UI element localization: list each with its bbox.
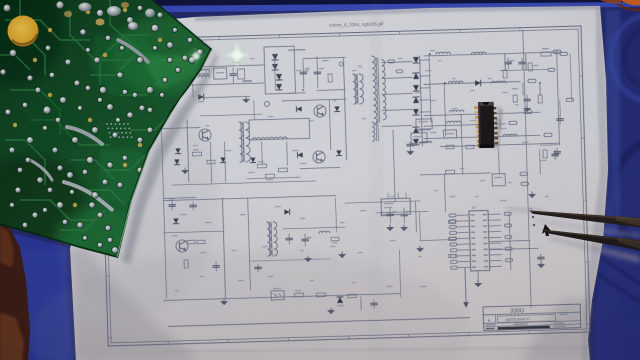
drive transformer T3 core box bbox=[249, 118, 310, 140]
output choke L5 bbox=[491, 81, 505, 83]
wire bbox=[283, 227, 345, 229]
diode D32 bbox=[220, 157, 225, 162]
resistor R46 bbox=[348, 294, 356, 298]
lens flare at PCB corner bbox=[189, 42, 250, 68]
filter cap C12 bbox=[526, 95, 528, 105]
vertical bus wire bbox=[523, 30, 531, 308]
mat bright triangle between hand and paper bbox=[8, 232, 76, 360]
resistor R43 bbox=[184, 260, 188, 268]
cap C32 bbox=[288, 234, 290, 244]
wire bbox=[419, 99, 430, 101]
resistor R72 bbox=[448, 254, 455, 257]
title block revision cell bbox=[559, 314, 567, 316]
output choke L6 bbox=[449, 110, 463, 112]
wire bbox=[343, 58, 346, 160]
wire bbox=[419, 141, 430, 143]
wire bbox=[164, 231, 224, 233]
ground bbox=[387, 225, 393, 231]
wire bbox=[504, 54, 506, 70]
wire bbox=[540, 144, 558, 147]
transformer winding (secondary) bbox=[245, 122, 250, 162]
resistor R40 bbox=[187, 240, 195, 244]
pill connector +5V bbox=[528, 79, 536, 83]
junction bbox=[539, 82, 541, 84]
U1 left pin 9 bbox=[458, 260, 470, 262]
U1 left pin 5 bbox=[458, 237, 470, 239]
wire bbox=[419, 87, 430, 89]
wire bbox=[444, 83, 446, 136]
U1 right pin 13 bbox=[488, 225, 500, 227]
transformer core bbox=[241, 122, 244, 162]
text +12V bbox=[430, 50, 435, 52]
wire bbox=[419, 212, 422, 240]
wire bbox=[539, 83, 541, 95]
cap C50 bbox=[554, 150, 556, 160]
capacitor CY1 bbox=[232, 68, 234, 73]
junction dot bbox=[533, 224, 535, 226]
title block file row bbox=[484, 324, 581, 327]
U1 left pin 10 connector bbox=[451, 266, 458, 269]
U1 right pin 4 connector bbox=[505, 235, 512, 238]
ground bbox=[524, 106, 530, 112]
wire bbox=[559, 100, 561, 115]
varistor RV1 bbox=[243, 80, 251, 82]
resistor R32 bbox=[265, 174, 274, 178]
filter capacitor C10 bbox=[507, 58, 509, 69]
shadow of PCB on paper bbox=[122, 52, 218, 264]
res R23 bbox=[543, 150, 547, 158]
diode D7 bbox=[336, 150, 341, 155]
U1 left pin 8 connector bbox=[450, 254, 457, 257]
base resistor R30 bbox=[257, 164, 266, 168]
paper top edge shadow bbox=[195, 6, 600, 21]
wire bbox=[248, 198, 251, 290]
regulator block U5 bbox=[381, 198, 411, 215]
transformer winding (primary) bbox=[353, 74, 358, 104]
resistor R50 bbox=[416, 119, 432, 129]
resistor R45 bbox=[316, 293, 325, 297]
U1 right pin 19 bbox=[490, 259, 502, 261]
junction bbox=[316, 57, 318, 59]
pill connector +3.3V bbox=[524, 110, 532, 114]
U1 right pin 16 bbox=[489, 242, 501, 244]
inrush thermistor NTC bbox=[328, 74, 332, 82]
title block date row bbox=[483, 321, 580, 324]
junction bbox=[444, 82, 446, 84]
output choke L2 bbox=[436, 52, 450, 54]
wire bbox=[419, 59, 430, 61]
diode D40 bbox=[198, 94, 204, 100]
cap C62 bbox=[409, 142, 411, 148]
secondary winding lower extension bbox=[372, 122, 375, 141]
resistor R64 bbox=[503, 70, 507, 78]
wire bbox=[317, 89, 345, 92]
bulk capacitor C1 bbox=[302, 60, 305, 88]
U1 right pin 11 bbox=[488, 213, 500, 215]
opto coupler IC2 bbox=[271, 291, 284, 300]
U1 left pin 2 bbox=[457, 220, 469, 222]
pill connector PSON bbox=[521, 182, 529, 185]
U1 left pin 2 connector bbox=[449, 220, 456, 223]
transformer winding (secondary) bbox=[359, 74, 364, 104]
rectifier diode D15 bbox=[413, 127, 419, 133]
wire bbox=[419, 111, 430, 113]
paper bottom right corner shade bbox=[520, 300, 592, 360]
wire bbox=[253, 100, 256, 120]
+12V rail wire bbox=[424, 52, 560, 56]
wire bbox=[429, 54, 431, 122]
resistor R34 bbox=[207, 160, 215, 164]
orange tool top right corner bbox=[620, 0, 640, 5]
cap C41 bbox=[403, 208, 405, 223]
transformer winding (primary) bbox=[267, 222, 271, 256]
transformer winding (primary) bbox=[239, 122, 244, 162]
paper right edge shade bbox=[581, 6, 608, 360]
tweezers lower prong bbox=[542, 230, 640, 251]
scattered reference text labels bbox=[235, 62, 240, 63]
wire bbox=[249, 259, 330, 261]
resistor R22 bbox=[538, 95, 542, 103]
output choke L9 bbox=[319, 231, 330, 233]
ground bbox=[305, 256, 311, 262]
cap C35 bbox=[373, 300, 375, 308]
U1 left pin 4 bbox=[458, 231, 470, 233]
wire bbox=[187, 120, 189, 182]
U1 right pin 18 bbox=[489, 254, 501, 256]
diode D3 bbox=[276, 74, 282, 80]
rectifier diode D10 bbox=[413, 57, 419, 63]
wire bbox=[500, 69, 548, 70]
title block size cell bbox=[483, 315, 495, 324]
resistor R66 bbox=[496, 120, 500, 128]
IC ground bbox=[477, 272, 479, 281]
U1 left pin 5 connector bbox=[450, 237, 457, 240]
tweezers motion blur ghost bbox=[506, 207, 544, 214]
ground bbox=[538, 262, 544, 268]
wire bbox=[192, 84, 194, 97]
zone tick marks bbox=[159, 38, 168, 344]
diode D31 bbox=[174, 159, 179, 164]
U1 right pin 2 connector bbox=[504, 224, 511, 227]
protection box U4 bbox=[492, 174, 505, 186]
tweezers bronze tint near edge bbox=[616, 216, 640, 226]
diode D33 bbox=[173, 218, 178, 223]
drawn cursor arrow under tweezer tip bbox=[542, 224, 552, 236]
yellow capacitor top bbox=[8, 16, 39, 47]
driver transistor Q3 bbox=[199, 129, 211, 141]
diode D6 bbox=[334, 106, 339, 111]
tweezers shadows on paper bbox=[546, 236, 640, 263]
wire bbox=[440, 143, 560, 146]
base resistor R31 bbox=[278, 168, 287, 172]
wire bbox=[222, 198, 225, 299]
wire bbox=[224, 142, 225, 182]
diode D9 bbox=[250, 157, 255, 162]
paper crease vertical bbox=[370, 6, 382, 356]
wire bbox=[329, 100, 330, 150]
ground bbox=[417, 246, 423, 252]
wire bbox=[461, 114, 463, 174]
pill connector PG bbox=[520, 172, 528, 175]
output choke L7 bbox=[446, 121, 460, 123]
mat circular ridge top right bbox=[611, 13, 640, 103]
mat bright edge band bbox=[0, 2, 640, 14]
switch transistor Q1 bbox=[314, 105, 326, 117]
ground bbox=[339, 252, 345, 258]
wire bbox=[420, 240, 455, 241]
wire bbox=[444, 174, 445, 212]
U1 right pin 20 bbox=[490, 265, 502, 267]
U1 left pin 3 bbox=[457, 226, 469, 228]
rectifier diode D11 bbox=[413, 73, 419, 79]
resistor R71 bbox=[448, 237, 455, 240]
fingertip highlight bbox=[0, 226, 14, 268]
U1 right pin 8 connector bbox=[506, 259, 513, 262]
wire bbox=[161, 128, 166, 298]
standby cap C31 bbox=[192, 202, 194, 210]
U1 left pin 9 connector bbox=[450, 260, 457, 263]
-5V rail wire bbox=[424, 135, 540, 138]
wire bbox=[522, 83, 524, 95]
U1 left pin 6 connector bbox=[450, 243, 457, 246]
ground bbox=[328, 308, 334, 314]
diode D4 bbox=[276, 84, 282, 90]
U1 left pin 1 bbox=[457, 214, 469, 216]
schematic frame outer border bbox=[99, 26, 590, 346]
pill connector VIN bbox=[566, 98, 574, 101]
transformer core bbox=[355, 74, 358, 104]
U1 right pin 12 bbox=[488, 219, 500, 221]
rectifier diode D12 bbox=[413, 85, 419, 91]
vertical bus wire bbox=[557, 50, 560, 145]
wire bbox=[415, 202, 418, 232]
transformer core bbox=[269, 222, 272, 256]
diode D2 bbox=[272, 64, 278, 70]
output choke L4 bbox=[448, 81, 462, 83]
secondary tap wires bbox=[382, 61, 412, 64]
resistor R41 bbox=[197, 240, 205, 244]
wire bbox=[261, 142, 264, 165]
junction bbox=[429, 53, 431, 55]
rectifier diode D16 bbox=[413, 139, 419, 145]
title block number cell bbox=[497, 314, 555, 322]
resistor R20 bbox=[541, 52, 551, 56]
U1 left pin 7 connector bbox=[450, 249, 457, 252]
+5V rail wire bbox=[424, 82, 520, 85]
wire bbox=[419, 75, 430, 77]
wire bus bbox=[164, 196, 336, 201]
TL431 reference U3 bbox=[337, 297, 343, 303]
pill connector GND bbox=[548, 68, 555, 71]
rectifier diode D13 bbox=[413, 97, 419, 103]
pill connector -12V bbox=[509, 121, 517, 125]
wire bbox=[204, 96, 250, 97]
wire bbox=[282, 99, 346, 101]
wire bbox=[172, 181, 316, 185]
rectifier bus wire bbox=[420, 56, 423, 146]
board edge shading bbox=[118, 49, 212, 258]
wire bbox=[274, 54, 275, 90]
cap C13 bbox=[556, 148, 558, 157]
wire bbox=[399, 250, 400, 297]
U1 left pin 6 bbox=[458, 243, 470, 245]
wire bbox=[200, 114, 262, 116]
DIP IC chip lying on paper bbox=[474, 102, 503, 149]
standby cap C30 bbox=[171, 201, 173, 210]
wire bbox=[286, 142, 289, 165]
schottky diode D20 bbox=[475, 80, 481, 86]
ground bbox=[401, 225, 407, 231]
wire bbox=[509, 214, 511, 270]
resistor R62 bbox=[381, 212, 389, 216]
U1 right pin 14 bbox=[489, 230, 501, 232]
terminal circle bbox=[339, 62, 343, 66]
standby MOSFET Q4 bbox=[176, 240, 188, 252]
pill connector -5V bbox=[544, 133, 552, 137]
wire bbox=[393, 130, 395, 202]
wire bbox=[303, 57, 345, 58]
U1 left pin 8 bbox=[458, 255, 470, 257]
schematic drawing group bbox=[99, 15, 590, 346]
diode D5 bbox=[296, 106, 301, 111]
rectifier diode D14 bbox=[413, 109, 419, 115]
U1 left pin 4 connector bbox=[450, 231, 457, 234]
resistor R61 bbox=[466, 145, 474, 149]
wire bbox=[490, 248, 538, 249]
U1 right pin 6 connector bbox=[505, 247, 512, 250]
schematic frame inner border bbox=[102, 29, 587, 343]
switch transistor Q2 bbox=[313, 151, 325, 163]
cap C34 bbox=[215, 262, 217, 271]
resistor R33 bbox=[192, 152, 201, 156]
U1 left pin 10 bbox=[459, 266, 471, 268]
ground bbox=[243, 97, 249, 103]
bottom rail wire bbox=[164, 294, 400, 301]
U1 left pin 3 connector bbox=[449, 225, 456, 228]
drive transformer windings bbox=[252, 137, 287, 140]
common-mode choke L1 bbox=[198, 69, 209, 71]
+3.3V rail wire bbox=[424, 112, 540, 115]
resistor R63 bbox=[422, 141, 432, 143]
cap C61 bbox=[257, 264, 259, 272]
output choke L3 bbox=[471, 52, 485, 54]
mat dark top strip bbox=[0, 0, 640, 7]
title block title row line bbox=[483, 312, 580, 315]
resistor R21 bbox=[528, 63, 532, 71]
ground bbox=[221, 299, 227, 305]
long bottom bus wire bbox=[168, 318, 470, 327]
wire bbox=[419, 129, 430, 131]
aux winding pills bbox=[388, 60, 395, 63]
IC U1 SG6105 body bbox=[469, 210, 490, 271]
wire bbox=[336, 198, 337, 232]
down arrow bbox=[465, 268, 466, 302]
text +5VSB bbox=[512, 88, 518, 90]
mat circular ridge right bbox=[612, 135, 640, 255]
junction dot bbox=[532, 216, 534, 218]
ground bbox=[407, 149, 413, 155]
U1 right pin 0 connector bbox=[504, 212, 511, 215]
wire bbox=[288, 49, 305, 51]
wire bbox=[376, 211, 428, 213]
wire bbox=[300, 167, 340, 168]
underlying sheet edge line bbox=[160, 347, 590, 352]
U1 left pin 7 bbox=[458, 249, 470, 251]
wire bbox=[360, 297, 362, 310]
resistor R70 bbox=[448, 220, 455, 223]
U1 right pin 15 bbox=[489, 236, 501, 238]
diode D1 bbox=[272, 54, 278, 60]
wire bbox=[570, 54, 571, 100]
wire bbox=[160, 127, 200, 128]
diode D8 bbox=[297, 152, 302, 157]
junction bbox=[302, 89, 304, 91]
AC line wire bbox=[188, 65, 264, 67]
pill connector +12V bbox=[553, 50, 561, 54]
hand holding board (shadowed skin) bbox=[0, 222, 30, 360]
U1 left pin 1 connector bbox=[449, 214, 456, 217]
thermistor TH1 bbox=[264, 101, 269, 106]
output choke L8 bbox=[503, 134, 517, 136]
cap C63 bbox=[559, 115, 561, 124]
transformer winding (secondary) bbox=[273, 222, 277, 256]
T1 secondary winding stack bbox=[372, 56, 377, 124]
wire bbox=[247, 177, 300, 179]
-12V rail wire bbox=[424, 124, 505, 126]
U1 right pin 17 bbox=[489, 248, 501, 250]
tweezers upper prong bbox=[529, 211, 640, 228]
wire bbox=[498, 150, 501, 174]
ground bbox=[182, 168, 188, 174]
filter capacitor C11 bbox=[521, 58, 523, 69]
wire bbox=[490, 240, 530, 241]
U5 pin stubs bbox=[387, 193, 389, 198]
X-capacitor CX1 bbox=[214, 68, 227, 79]
cap C51 bbox=[540, 254, 542, 262]
resistor R44 bbox=[294, 293, 303, 297]
paper bottom-left shade bbox=[70, 248, 200, 360]
hand lower light patch bbox=[0, 312, 24, 360]
cap C33 bbox=[304, 234, 306, 246]
resistor R60 bbox=[446, 145, 454, 149]
bridge rectifier loop bbox=[264, 46, 295, 94]
X-capacitor CX2 bbox=[238, 69, 245, 79]
ground bbox=[529, 192, 535, 198]
bulk capacitor C2 bbox=[316, 60, 319, 88]
diode D30 bbox=[175, 148, 180, 153]
mat ridge lines bottom right bbox=[598, 258, 640, 302]
resistor R52 bbox=[445, 170, 454, 174]
wire bbox=[420, 173, 490, 175]
wire bbox=[164, 197, 196, 200]
wire bbox=[210, 142, 211, 183]
AC neutral wire bbox=[188, 83, 264, 85]
resistor block R51 bbox=[411, 133, 427, 143]
title block frame bbox=[483, 304, 581, 330]
wire bbox=[288, 92, 305, 94]
pill connector FAN bbox=[560, 52, 568, 55]
wire bbox=[525, 54, 527, 70]
wire bbox=[345, 201, 420, 203]
cap C40 bbox=[389, 208, 391, 223]
resistor R65 bbox=[513, 95, 517, 102]
paper mid shading bbox=[30, 250, 470, 360]
rectifier block box bbox=[443, 130, 456, 138]
resistor R42 bbox=[331, 237, 339, 241]
mat highlight band along right paper edge bbox=[600, 10, 620, 250]
wire bbox=[539, 150, 542, 174]
diode D34 bbox=[284, 209, 289, 214]
